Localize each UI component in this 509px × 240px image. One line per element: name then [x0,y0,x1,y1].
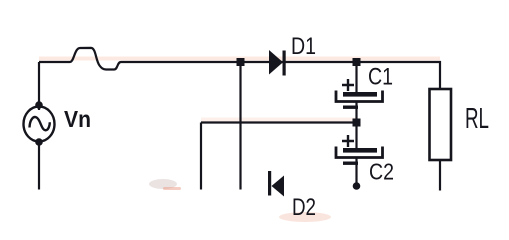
C2 bottom terminal dot [353,182,361,190]
wire: top rail with fuse squiggle [39,48,440,89]
C2 bottom plate bracket [336,147,383,158]
resistor RL [430,89,490,160]
wire: RL bottom lead [439,160,441,191]
wire: vertical from D1 anode junction [239,62,241,190]
Vn top terminal dot [35,101,43,109]
wire: C1 bottom to mid junction [355,102,357,123]
svg-text:RL: RL [465,103,489,135]
Vn sine wave [30,117,50,130]
source Vn [24,101,92,146]
svg-text:Vn: Vn [64,106,91,132]
wire: left middle vertical drop [200,123,202,190]
Vn bottom terminal dot [35,138,43,146]
Vn circle [24,107,55,142]
diode D2 [268,171,316,221]
minus sign C1 [343,106,358,109]
C1 top plate [343,92,377,97]
wire: source Vn bottom lead [38,139,40,190]
capacitor C2 [336,135,394,190]
C2 top plate [343,148,377,153]
svg-text:C2: C2 [369,159,394,185]
wire: source Vn top lead [38,62,40,110]
svg-text:D2: D2 [292,194,316,221]
diode D1 [269,33,316,76]
wire: C2 top lead [355,123,357,149]
node junction between C1 and C2 [353,119,361,127]
wire: middle rail [201,121,356,123]
node junction at C1 top [353,58,361,66]
svg-text:D1: D1 [291,33,316,60]
capacitor C1 [336,64,393,109]
plus sign C2 [342,135,354,147]
C1 bottom plate bracket [336,91,383,102]
plus sign C1 [342,79,354,91]
node junction at D1 anode [237,58,245,66]
wire: C1 top lead [355,62,357,92]
svg-text:C1: C1 [368,64,393,91]
wire: C2 bottom lead [355,158,357,186]
minus sign C2 [343,162,358,165]
